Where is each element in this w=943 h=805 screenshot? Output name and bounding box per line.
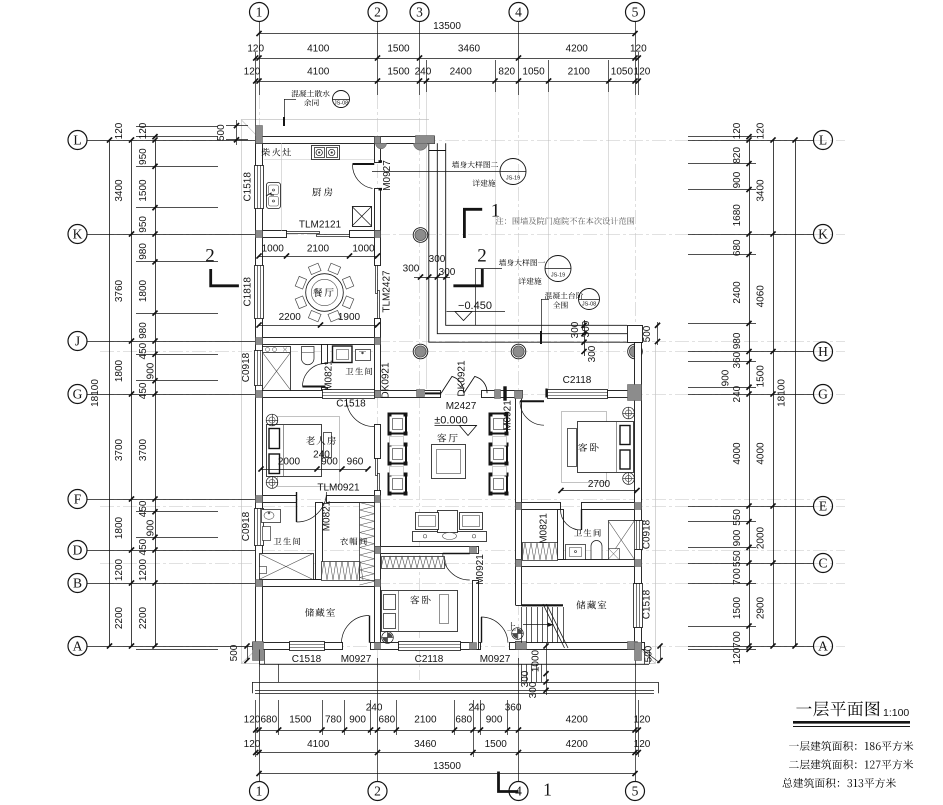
svg-text:120: 120 [630,44,647,55]
svg-text:1500: 1500 [289,715,312,726]
svg-text:120: 120 [114,122,125,139]
label M0927 bottom-right [480,654,511,665]
bottom dimension row totals [244,739,651,755]
level mark -0.450 [447,300,506,321]
svg-text:2100: 2100 [307,244,330,255]
svg-text:L: L [819,133,827,148]
svg-text:3460: 3460 [414,739,437,750]
axis bubble 2 top [368,3,387,22]
column 1/G [256,391,263,398]
label bedroom right [578,443,598,452]
axis bubble L left [68,131,87,150]
svg-text:M0921: M0921 [475,554,486,585]
label M0927 kitchen [382,160,393,191]
column 5/G [628,385,642,401]
interior wall bath/laundry [322,345,328,391]
svg-text:D: D [73,543,83,558]
lamp symbol elderly top [266,414,278,426]
wall axis-F [263,496,375,503]
svg-text:500: 500 [642,325,653,342]
svg-text:DK0921: DK0921 [457,360,468,397]
svg-text:360: 360 [505,703,522,714]
svg-text:2400: 2400 [450,67,473,78]
right dimension 18100 [777,137,798,648]
svg-text:450: 450 [138,342,149,359]
svg-text:120: 120 [634,715,651,726]
svg-text:1500: 1500 [732,596,743,619]
svg-text:H: H [818,344,828,359]
axis bubble J left [68,332,87,351]
window C1518 hall axis-G [322,390,375,399]
svg-text:550: 550 [732,509,743,526]
bath right shower [608,521,635,560]
svg-text:4100: 4100 [307,739,330,750]
column 2/F [375,496,381,503]
living sofa left column [388,413,408,496]
svg-text:1:100: 1:100 [883,707,909,719]
sliding door TLM2121 [287,232,350,237]
svg-text:1500: 1500 [485,739,508,750]
svg-text:1: 1 [543,780,552,800]
svg-text:G: G [818,387,828,402]
svg-text:900: 900 [720,369,731,386]
svg-text:120: 120 [634,739,651,750]
svg-text:18100: 18100 [777,379,788,407]
right extension lines [688,137,814,650]
svg-text:550: 550 [732,550,743,567]
svg-text:820: 820 [498,67,515,78]
svg-text:2200: 2200 [279,312,302,323]
svg-text:240: 240 [313,450,330,461]
label M0927 bottom-left [341,654,372,665]
living sofa right column [489,413,509,496]
dim elderly 2000 900 960 [258,450,370,472]
svg-text:1200: 1200 [138,558,149,581]
svg-text:C1518: C1518 [336,399,366,410]
column 1/B [256,580,263,587]
svg-text:JS-19: JS-19 [506,176,520,182]
label M0921 bottom [475,554,486,585]
svg-text:680: 680 [261,715,278,726]
bed bedroom bottom [382,591,458,632]
label C1518 right [642,589,653,619]
svg-text:1800: 1800 [138,279,149,302]
svg-text:2000: 2000 [278,457,301,468]
label C2118 axis-G [563,375,592,386]
wardrobe bedroom bottom [381,556,447,569]
closet right wing [522,543,558,561]
svg-text:M0821: M0821 [322,500,333,531]
svg-text:1500: 1500 [138,179,149,202]
svg-text:300: 300 [570,321,581,338]
axis bubble 5 top [626,3,645,22]
svg-text:240: 240 [732,385,743,402]
label C1518 left [243,172,254,202]
axis bubble K right [814,225,833,244]
dim fence right 300s [570,320,598,362]
svg-text:500: 500 [229,644,240,661]
svg-text:2700: 2700 [588,479,611,490]
front wall axis-G [263,391,642,398]
axis bubble 4 top [509,3,528,22]
wall axis-C [522,560,642,567]
svg-text:1800: 1800 [114,359,125,382]
label C2118 bottom [415,654,444,665]
wall bath right [558,510,564,560]
stairs [522,604,569,648]
label storage left [305,608,335,617]
svg-text:C1518: C1518 [292,654,322,665]
door M0927 storage bottom-left [342,616,370,643]
svg-text:300: 300 [403,264,420,275]
svg-text:C2118: C2118 [415,654,444,665]
svg-text:980: 980 [138,322,149,339]
svg-text:4100: 4100 [307,67,330,78]
column 2/G [375,391,381,398]
TV cabinet [413,511,487,542]
wall axis-B [263,580,375,587]
door M0821 bath1 [303,364,326,387]
door M0927 corridor bottom [481,617,508,643]
left extension lines [88,127,256,650]
bottom dimension row 13500 [256,761,637,776]
callout wall detail 2 [372,159,526,187]
svg-text:120: 120 [634,67,651,78]
living center rug [432,445,466,479]
axis bubble L right [814,131,833,150]
label C0918 bath1 [241,352,252,382]
svg-text:G: G [73,387,83,402]
svg-text:2900: 2900 [756,596,767,619]
callout wall detail 1 [475,256,571,326]
svg-text:1000: 1000 [352,244,375,255]
svg-text:1000: 1000 [262,244,285,255]
axis bubble 1 top [250,3,269,22]
svg-text:900: 900 [349,715,366,726]
svg-text:900: 900 [486,715,503,726]
dim kitchen 1000 2100 1000 [256,244,380,259]
lamp bedroom right bottom [623,473,635,485]
dim bedroom right 2700 [558,479,639,493]
dim fence top 300s [403,254,456,280]
column 3/G entry [417,390,425,397]
svg-text:960: 960 [347,457,364,468]
label C1818 left [243,277,254,307]
svg-text:JS-19: JS-19 [551,273,565,279]
area text line2 [789,759,913,769]
interior wall corridor [473,547,479,650]
exterior wall axis-L top [256,137,435,144]
svg-text:1200: 1200 [114,558,125,581]
svg-text:2: 2 [477,246,487,267]
kitchen counter [264,143,374,230]
window C0918 bath1 left [255,350,264,386]
column pier 3/L [414,136,435,151]
axis bubble G left [68,385,87,404]
window C1518 storage right [634,583,643,628]
axis bubble B left [68,574,87,593]
svg-text:900: 900 [146,519,157,536]
label DK0921 [457,360,468,397]
wall axis-4 [516,391,522,650]
column 1/F [256,496,263,503]
svg-text:4100: 4100 [307,44,330,55]
cloakroom wardrobe [321,503,375,586]
svg-text:120: 120 [244,67,261,78]
axis bubble D left [68,541,87,560]
entry steps outside [522,664,542,682]
sliding door TLM2427 [376,266,380,319]
lamp symbol elderly bottom [266,477,278,489]
svg-text:5: 5 [632,784,639,799]
svg-text:4: 4 [515,5,522,20]
svg-text:2400: 2400 [732,281,743,304]
top dimension row totals [247,44,647,61]
axis bubble F left [68,490,87,509]
axis bubble K left [68,225,87,244]
svg-text:450: 450 [138,538,149,555]
area text line1 [789,741,913,751]
svg-text:700: 700 [732,568,743,585]
svg-text:450: 450 [138,500,149,517]
grid centerlines [100,95,845,680]
dining table round [295,263,354,322]
bottom dimension row details [244,703,651,733]
bath right washbasin [566,545,586,560]
fence column at axis 4/H [511,344,526,359]
label M2427 [446,401,477,412]
section mark 2 middle [453,246,486,286]
column 2/B [375,580,381,587]
svg-text:F: F [74,492,82,507]
section mark 1 bottom [499,772,552,800]
door M2427 entry double [425,376,487,393]
svg-text:1: 1 [256,5,263,20]
dim 500 fence right [642,322,660,345]
note text [496,217,635,225]
bed bedroom right [562,412,634,483]
svg-text:TLM2427: TLM2427 [382,270,393,313]
svg-text:4000: 4000 [732,442,743,465]
svg-text:JS-08: JS-08 [582,302,596,308]
wall axis-J dining/bath [263,338,375,345]
svg-text:±0.000: ±0.000 [434,415,468,427]
svg-text:500: 500 [216,124,227,141]
dim 500 bottom-left [229,643,250,663]
svg-text:4200: 4200 [566,715,589,726]
svg-text:1: 1 [491,201,501,222]
column corridor/A [470,643,477,650]
axis bubble H right [814,342,833,361]
column 2/K [375,231,381,238]
label stairs up [507,622,516,630]
svg-text:M0927: M0927 [480,654,511,665]
label bedroom bottom [410,596,430,605]
svg-text:5: 5 [632,5,639,20]
washing machine [333,346,353,363]
top dimension row details [244,67,651,84]
svg-text:J: J [75,334,80,349]
svg-text:450: 450 [138,382,149,399]
svg-text:M2427: M2427 [446,401,477,412]
exterior wall axis-A bottom [253,643,645,650]
label bath right [574,529,601,537]
dim 500 top-left [216,120,248,145]
svg-text:A: A [818,639,828,654]
svg-text:120: 120 [756,122,767,139]
svg-text:240: 240 [415,67,432,78]
svg-text:360: 360 [732,351,743,368]
axis bubble A right [814,637,833,656]
bath2 toilet [263,527,271,541]
label C1518 bottom [292,654,322,665]
window C1518 kitchen left [255,165,264,209]
svg-text:2: 2 [374,5,381,20]
svg-text:DK0921: DK0921 [381,362,392,399]
axis bubble 4 bottom [509,782,528,801]
svg-text:2000: 2000 [756,526,767,549]
svg-text:1900: 1900 [338,312,361,323]
label bath2 [274,537,301,545]
svg-text:1500: 1500 [756,365,767,388]
stair access opening [515,605,517,641]
svg-text:B: B [73,576,82,591]
svg-text:A: A [73,639,83,654]
axis bubble G right [814,385,833,404]
label C1518 axis-G [336,399,366,410]
axis bubble 1 bottom [250,782,269,801]
svg-text:2200: 2200 [114,606,125,629]
label kitchen [312,187,332,196]
window C2118 bedroom bottom [398,642,461,651]
label M0821 right bath [539,513,550,544]
svg-text:C1518: C1518 [642,589,653,619]
sliding door TLM0921 [376,459,380,491]
column 2/L [375,137,387,149]
kitchen stove [312,146,340,160]
bath1 toilet [302,347,315,365]
svg-text:3400: 3400 [756,179,767,202]
column 4/A [516,642,527,650]
label TLM0921 [317,483,360,494]
window C2118 axis-G [548,390,608,399]
label M0921 right [503,400,514,431]
svg-text:2200: 2200 [138,606,149,629]
svg-text:L: L [73,133,81,148]
axis bubble E right [814,497,833,516]
svg-text:M0927: M0927 [382,160,393,191]
svg-text:4000: 4000 [756,442,767,465]
svg-text:4200: 4200 [566,739,589,750]
svg-text:300: 300 [581,320,592,337]
dim 1000 300 300 bottom terrace [520,643,549,698]
svg-text:M0821: M0821 [539,513,550,544]
callout concrete apron top-left [284,90,350,126]
top extension lines [256,22,639,390]
svg-text:120: 120 [732,647,743,664]
title first floor plan [793,701,910,726]
label cloakroom [340,537,367,545]
svg-text:1050: 1050 [522,67,545,78]
svg-text:120: 120 [244,739,261,750]
svg-text:C1818: C1818 [243,277,254,307]
column 1/A [253,642,264,661]
right dimension column details [720,122,751,664]
svg-text:3460: 3460 [458,44,481,55]
svg-text:K: K [73,227,83,242]
column 2/G [375,391,381,398]
bath right toilet [591,541,602,560]
svg-text:1500: 1500 [387,67,410,78]
svg-text:M0921: M0921 [503,400,514,431]
svg-text:300: 300 [528,681,539,698]
svg-text:1800: 1800 [114,516,125,539]
svg-text:M0927: M0927 [341,654,372,665]
label C0918 bath2 [241,511,252,541]
left dimension column details [138,122,158,648]
window C1518 storage bottom [290,642,325,651]
axis bubble 3 top [410,3,429,22]
svg-text:300: 300 [439,267,456,278]
svg-text:−0.450: −0.450 [458,300,492,312]
bed elderly room [267,417,340,487]
label elderly room [306,436,336,445]
svg-text:950: 950 [138,216,149,233]
svg-text:120: 120 [138,122,149,139]
svg-text:3760: 3760 [114,279,125,302]
svg-text:1: 1 [256,784,263,799]
window C1818 dining left [255,266,264,319]
column 5/E [635,503,642,510]
svg-text:13500: 13500 [433,21,461,32]
label bath1 [346,367,373,375]
label DK0921 wall2 [381,362,392,399]
label dining [313,288,333,297]
svg-text:M0821: M0821 [324,360,335,391]
bath1 shower [263,347,291,391]
svg-text:900: 900 [146,362,157,379]
svg-text:3: 3 [416,5,423,20]
svg-text:1680: 1680 [732,204,743,227]
label M0821 bath2 [322,500,333,531]
left dimension column totals [114,122,134,648]
column 1/J [256,338,263,345]
svg-text:JS-08: JS-08 [334,100,348,106]
kitchen refrigerator [352,207,372,227]
axis bubble A left [68,637,87,656]
svg-text:E: E [819,499,827,514]
fence end pier [628,326,643,343]
svg-text:3700: 3700 [138,438,149,461]
axis bubble 5 bottom [626,782,645,801]
top dimension row 13500 [256,21,637,36]
svg-text:2: 2 [205,246,215,267]
svg-text:240: 240 [468,703,485,714]
svg-text:1050: 1050 [611,67,634,78]
svg-text:2100: 2100 [568,67,591,78]
fence column at axis 5/H [628,344,643,359]
lamp corridor [512,628,524,640]
svg-text:K: K [818,227,828,242]
column 4/C [516,560,522,567]
svg-text:500: 500 [644,645,655,662]
kitchen sink [266,183,281,209]
door M0921 bedroom right [504,387,547,426]
dim 500 bottom-right [643,643,663,663]
axis bubble 2 bottom [368,782,387,801]
door M0921 elderly room [347,399,375,427]
area text line3 [782,778,895,788]
